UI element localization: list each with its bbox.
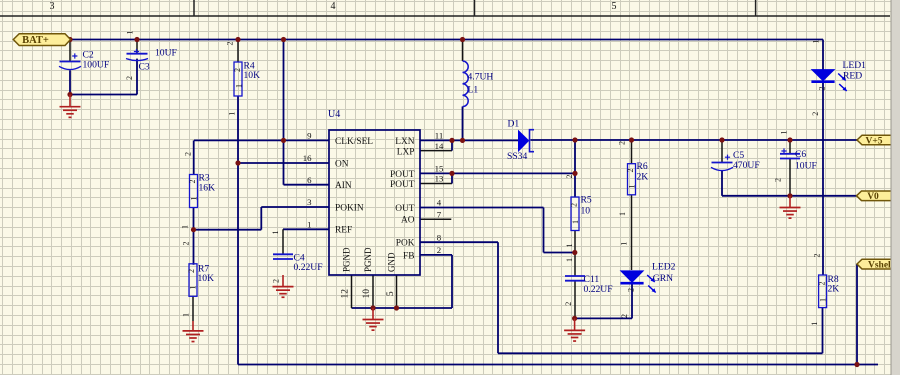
svg-text:0.22UF: 0.22UF: [294, 262, 323, 273]
LED2 pin numbers: [619, 242, 635, 318]
port BAT+ flag: [13, 34, 70, 46]
capacitor C5 symbol: [711, 163, 733, 171]
R6 labels: [637, 161, 649, 183]
R5 pin numbers: [565, 175, 580, 248]
capacitor C11 symbol: [565, 276, 585, 281]
svg-text:1: 1: [812, 40, 821, 44]
port BAT+ text: [22, 35, 49, 46]
wire OUT to R5/C11: [544, 252, 575, 254]
svg-text:R5: R5: [581, 194, 592, 205]
wire LED2 return: [575, 317, 632, 319]
svg-text:SS34: SS34: [507, 151, 527, 162]
wire R6 to LED2: [631, 195, 633, 270]
svg-text:RED: RED: [843, 70, 862, 81]
svg-text:1: 1: [235, 84, 244, 88]
C3 plus sign: [134, 49, 139, 54]
svg-text:L1: L1: [468, 85, 479, 96]
wire R6 top stub: [631, 140, 633, 164]
svg-text:2: 2: [184, 152, 193, 156]
wire LXP riser: [451, 140, 453, 150]
wire POUT riser: [451, 173, 453, 183]
wire LXN pin 11 to D1: [420, 139, 519, 141]
wire POK to R8: [498, 352, 823, 354]
C6 plus sign: [781, 148, 786, 153]
svg-text:10: 10: [362, 289, 372, 299]
ground under C4: [273, 275, 294, 297]
svg-text:C3: C3: [139, 62, 150, 73]
svg-text:2: 2: [226, 42, 235, 46]
wire R5 bottom stub: [574, 231, 576, 253]
svg-text:1: 1: [126, 31, 135, 35]
wire C6 top stub: [789, 140, 791, 154]
svg-text:470UF: 470UF: [733, 160, 760, 171]
R3 labels: [199, 173, 216, 194]
wire L1 bottom: [462, 107, 464, 141]
svg-text:GND: GND: [387, 252, 397, 272]
svg-text:1: 1: [182, 313, 191, 317]
svg-text:0.22UF: 0.22UF: [584, 284, 613, 295]
ground under C2: [60, 95, 81, 118]
LED LED2 symbol: [620, 271, 655, 293]
wire POKIN riser: [260, 207, 262, 230]
R6 pin numbers: [618, 141, 637, 216]
svg-text:2: 2: [272, 279, 281, 283]
svg-text:1: 1: [189, 286, 198, 290]
R8 labels: [828, 274, 840, 295]
wire LED1 cathode to R8: [822, 83, 824, 275]
wire AO pin 7 stub: [420, 218, 451, 220]
wire C3 top stub: [136, 40, 138, 54]
wire L1 top stub: [462, 40, 464, 62]
svg-text:V+5: V+5: [865, 136, 882, 146]
svg-text:POUT: POUT: [390, 170, 415, 180]
svg-text:2: 2: [564, 302, 573, 306]
R8 pin numbers: [810, 254, 828, 326]
wire R4 bottom run: [237, 96, 239, 365]
svg-text:10: 10: [581, 206, 591, 217]
resistor R3: [190, 175, 198, 208]
svg-text:1: 1: [619, 242, 628, 246]
wire C5 bottom: [721, 171, 723, 196]
svg-text:7: 7: [437, 210, 442, 220]
wire POK drop: [497, 242, 499, 353]
wire C2 bottom: [69, 70, 71, 94]
C3 labels: [139, 48, 177, 73]
C5 plus sign: [725, 155, 730, 160]
svg-text:POKIN: POKIN: [335, 203, 364, 213]
svg-text:ON: ON: [335, 159, 349, 169]
C2 plus sign: [72, 53, 77, 58]
svg-text:1: 1: [810, 322, 819, 326]
wire R7 bottom stub: [192, 296, 194, 321]
svg-text:AO: AO: [401, 216, 415, 226]
wire PGND rail: [352, 307, 453, 309]
svg-text:FB: FB: [403, 251, 414, 261]
svg-text:2: 2: [182, 242, 191, 246]
LED LED1 symbol: [811, 70, 846, 91]
R3 pin numbers: [181, 152, 199, 229]
wire V0 rail: [722, 195, 857, 197]
svg-text:BAT+: BAT+: [22, 35, 49, 46]
port V0 flag: [857, 191, 894, 201]
wire PGND pin 10 stub: [372, 275, 374, 308]
U4 bottom pin names: [342, 247, 397, 272]
wire C11 top stub: [574, 253, 576, 277]
svg-text:1: 1: [228, 112, 237, 116]
svg-text:D1: D1: [508, 119, 520, 130]
inductor L1 symbol: [463, 61, 469, 107]
wire C2-C3 bottom link: [70, 94, 137, 96]
svg-text:1: 1: [190, 197, 199, 201]
svg-text:2: 2: [626, 169, 635, 173]
svg-text:3: 3: [307, 197, 312, 207]
wire V+5 rail: [531, 139, 858, 141]
svg-text:10K: 10K: [198, 273, 215, 284]
svg-text:LXN: LXN: [395, 137, 414, 147]
svg-text:PGND: PGND: [342, 247, 352, 272]
R4 labels: [244, 61, 261, 82]
C6 pin numbers: [774, 131, 789, 183]
svg-text:4.7UH: 4.7UH: [468, 72, 494, 83]
wire REF pin 1: [283, 228, 329, 230]
capacitor C2 symbol: [59, 62, 81, 70]
wire BAT+ riser to CLK/AIN: [283, 40, 285, 185]
svg-text:2: 2: [618, 141, 627, 145]
svg-text:8: 8: [437, 232, 442, 242]
svg-text:V0: V0: [867, 192, 879, 202]
wire POUT pin 13 stub: [420, 183, 452, 185]
svg-text:5: 5: [386, 291, 396, 296]
U4 left pin numbers: [303, 131, 312, 230]
R4 pin numbers: [226, 42, 244, 116]
LED1 labels: [843, 60, 867, 81]
svg-text:9: 9: [307, 131, 312, 141]
capacitor C6 symbol: [780, 154, 800, 159]
capacitor C3 symbol: [126, 54, 148, 61]
wire POK pin 8: [420, 241, 498, 243]
wire REF to C4: [282, 229, 284, 254]
C11 labels: [584, 274, 613, 295]
svg-text:14: 14: [435, 141, 444, 151]
diode D1 symbol: [519, 130, 535, 152]
svg-text:2: 2: [818, 282, 827, 286]
resistor R5: [571, 197, 579, 231]
port V0 text: [867, 192, 879, 202]
D1 labels: [507, 119, 527, 162]
svg-text:1: 1: [271, 231, 280, 235]
port V+5 flag: [857, 135, 893, 145]
wire CLK/SEL pin 9: [194, 139, 329, 141]
svg-text:POK: POK: [396, 239, 415, 249]
svg-text:LED2: LED2: [652, 262, 676, 273]
svg-text:U4: U4: [328, 109, 340, 120]
svg-text:Vshell: Vshell: [868, 260, 894, 270]
svg-text:16K: 16K: [199, 182, 216, 193]
svg-text:OUT: OUT: [395, 204, 415, 214]
svg-text:15: 15: [435, 164, 444, 174]
R5 labels: [581, 194, 592, 216]
U4 right pin numbers: [435, 131, 444, 256]
svg-text:C6: C6: [795, 149, 806, 160]
wire OUT drop: [543, 208, 545, 253]
svg-text:6: 6: [307, 175, 312, 185]
wire POKIN pin 3: [261, 206, 329, 208]
svg-text:2: 2: [811, 112, 820, 116]
svg-text:2: 2: [187, 269, 196, 273]
svg-text:1: 1: [628, 185, 637, 189]
svg-text:LXP: LXP: [397, 147, 415, 157]
resistor R6: [628, 164, 636, 195]
window edge strip: [891, 0, 900, 375]
wire ON pin 16: [238, 162, 329, 164]
port Vshel text: [868, 260, 894, 270]
svg-text:10UF: 10UF: [155, 48, 177, 59]
op-amp U4 body (boost converter IC): [329, 130, 420, 275]
C3 pin numbers: [125, 31, 135, 81]
svg-text:2: 2: [233, 68, 242, 72]
wire R8 bottom stub: [822, 308, 824, 354]
port V+5 text: [865, 136, 882, 146]
wire FB drop: [451, 255, 453, 308]
svg-text:4: 4: [331, 1, 336, 12]
L1 labels: [468, 72, 494, 96]
svg-text:2K: 2K: [828, 284, 840, 295]
C4 pin numbers: [271, 231, 281, 284]
svg-text:2: 2: [570, 203, 579, 207]
svg-text:100UF: 100UF: [83, 59, 110, 70]
wire AIN pin 6: [284, 184, 330, 186]
C11 pin numbers: [564, 258, 574, 306]
capacitor C4 symbol: [273, 254, 293, 259]
svg-text:CLK/SEL: CLK/SEL: [335, 137, 373, 147]
svg-text:REF: REF: [335, 226, 352, 236]
C4 labels: [294, 252, 323, 273]
wire PGND pin 12 stub: [351, 275, 353, 308]
C6 labels: [795, 149, 817, 171]
wire Vshel drop: [856, 264, 858, 365]
svg-text:13: 13: [435, 174, 444, 184]
wire R5 top run: [574, 140, 576, 197]
svg-text:2: 2: [627, 288, 636, 292]
svg-text:GRN: GRN: [653, 273, 673, 284]
svg-text:1: 1: [571, 220, 580, 224]
wire C5 top stub: [721, 140, 723, 162]
wire LED2 cathode drop: [631, 285, 633, 319]
svg-text:PGND: PGND: [363, 247, 373, 272]
svg-text:1: 1: [307, 220, 311, 230]
resistor R7: [189, 264, 197, 297]
ground under C11: [564, 318, 585, 341]
U4 designator: [328, 109, 340, 120]
LED1 pin numbers: [811, 40, 827, 116]
ground under U4 GND pins: [363, 308, 384, 330]
svg-text:11: 11: [435, 131, 443, 141]
wire R4 top stub: [237, 40, 239, 63]
wire OUT pin 4: [420, 207, 544, 209]
wire GND pin 5 stub: [396, 275, 398, 308]
svg-text:AIN: AIN: [335, 181, 352, 191]
wire BAT+ rail: [71, 39, 824, 41]
wire LED1 anode drop: [822, 40, 824, 70]
svg-text:1: 1: [780, 131, 789, 135]
ground under R7: [183, 321, 204, 342]
ground under C6 (V0): [780, 196, 801, 218]
svg-text:R6: R6: [637, 161, 648, 172]
svg-text:1: 1: [565, 244, 574, 248]
wire POUT pin 15: [420, 172, 575, 174]
svg-text:2: 2: [774, 178, 783, 182]
svg-text:5: 5: [612, 1, 617, 12]
U4 bottom pin numbers: [341, 289, 397, 299]
sheet border top: [0, 0, 890, 16]
svg-text:10K: 10K: [244, 70, 261, 81]
wire divider to POKIN: [194, 229, 262, 231]
svg-text:2: 2: [818, 87, 827, 91]
svg-text:2: 2: [188, 180, 197, 184]
svg-text:4: 4: [437, 198, 442, 208]
svg-text:3: 3: [50, 1, 55, 12]
wire C3 bottom: [136, 59, 138, 95]
svg-text:12: 12: [341, 289, 351, 299]
wire FB pin 2: [420, 254, 452, 256]
svg-text:POUT: POUT: [390, 180, 415, 190]
R7 labels: [198, 264, 215, 285]
svg-text:1: 1: [181, 225, 190, 229]
port Vshel flag: [857, 259, 893, 269]
R7 pin numbers: [182, 242, 198, 318]
resistor R8: [819, 275, 827, 308]
LED2 labels: [652, 262, 676, 284]
wire C6 bottom stub: [789, 158, 791, 196]
svg-text:2: 2: [620, 314, 629, 318]
wire R3-R7 link: [193, 208, 195, 265]
U4 left pin names: [335, 137, 373, 236]
svg-text:2K: 2K: [637, 172, 649, 183]
svg-text:1: 1: [565, 258, 574, 262]
wire C2 top stub: [69, 40, 71, 62]
svg-text:2: 2: [813, 254, 822, 258]
svg-text:2: 2: [125, 76, 134, 80]
U4 right pin names: [390, 137, 415, 261]
C5 labels: [733, 150, 760, 171]
svg-text:1: 1: [618, 212, 627, 216]
svg-text:1: 1: [819, 298, 828, 302]
wire LXP pin 14 stub: [420, 150, 452, 152]
resistor R4: [234, 62, 242, 96]
svg-text:16: 16: [303, 153, 312, 163]
svg-text:2: 2: [437, 245, 441, 255]
svg-text:10UF: 10UF: [795, 160, 817, 171]
wire bottom net rail: [238, 364, 878, 366]
wire C11 bottom stub: [574, 281, 576, 318]
C2 labels: [83, 50, 110, 71]
wire R3 top drop: [193, 140, 195, 174]
svg-text:2: 2: [565, 175, 574, 179]
